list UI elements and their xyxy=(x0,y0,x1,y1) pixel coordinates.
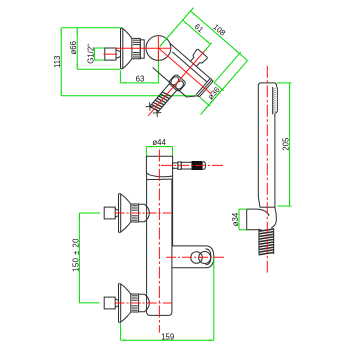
lever dome curve xyxy=(146,173,172,177)
clip strip texture xyxy=(274,88,277,111)
shower hose coil xyxy=(259,229,274,255)
spout axis centerline red xyxy=(158,48,211,94)
dimension 205 line xyxy=(277,83,292,206)
body centerline red vertical xyxy=(158,150,160,333)
svg-text:113: 113 xyxy=(53,56,62,68)
lower union cone xyxy=(121,284,131,322)
dimension phi34 line xyxy=(239,209,247,230)
hose break marks xyxy=(145,102,161,117)
spout tube body xyxy=(150,43,213,103)
eccentric tail G1/2 (side view) xyxy=(105,48,121,60)
lower union tail xyxy=(104,297,118,309)
handle clip strip xyxy=(272,86,277,114)
dimension 61 line xyxy=(177,19,212,51)
upper union tail xyxy=(104,207,118,219)
svg-text:G1/2": G1/2" xyxy=(86,44,95,64)
upper union centerline red xyxy=(115,212,172,214)
holder centerline red xyxy=(166,256,225,258)
hose hex nut xyxy=(168,74,186,92)
lever centerline red xyxy=(161,164,223,166)
knurled nut (side view) xyxy=(132,38,140,58)
hand shower hose (top view) xyxy=(150,84,177,113)
escutcheon cone (side view) xyxy=(123,29,132,69)
dimension 113 vertical line xyxy=(61,28,198,96)
tail centerline red xyxy=(103,53,117,55)
svg-text:150 ± 20: 150 ± 20 xyxy=(71,238,80,272)
lower union centerline red xyxy=(115,302,172,304)
upper union cone xyxy=(121,194,131,232)
knob-hose axis centerline red xyxy=(148,48,207,116)
hand shower centerline red xyxy=(266,66,268,273)
dimension phi66 line xyxy=(77,28,120,69)
lower union cap nut xyxy=(139,294,150,312)
hose coil outline xyxy=(259,228,274,255)
svg-text:205: 205 xyxy=(281,137,290,151)
svg-text:159: 159 xyxy=(161,332,174,341)
shower holder bracket xyxy=(172,246,214,268)
svg-text:ø34: ø34 xyxy=(231,212,240,226)
svg-text:108: 108 xyxy=(211,22,227,37)
dimension 108 line xyxy=(160,8,251,96)
upper union knurled nut xyxy=(131,204,139,222)
lever handle front xyxy=(173,162,192,169)
holder hole circles xyxy=(191,252,211,264)
svg-text:61: 61 xyxy=(193,22,205,34)
diverter knob xyxy=(188,49,207,69)
body top cap xyxy=(146,156,172,176)
dimension 150+-20 line xyxy=(79,213,100,303)
ball vertical centerline red xyxy=(157,37,159,61)
lower union flange xyxy=(119,284,121,323)
svg-text:ø66: ø66 xyxy=(69,41,78,54)
main axis centerline red xyxy=(117,47,172,49)
dimension 63 line xyxy=(120,51,158,84)
wall flange (side view) xyxy=(121,28,123,68)
body tube front xyxy=(147,173,173,316)
connector cylinder to ball xyxy=(140,40,144,58)
dimension 159 line xyxy=(121,258,214,340)
upper union cap nut xyxy=(139,204,150,222)
mixer ball body xyxy=(146,36,171,61)
dimension G1/2 box xyxy=(94,48,104,60)
lower union knurled nut xyxy=(131,294,139,312)
dimension phi36 line xyxy=(192,53,249,116)
dimension phi44 line xyxy=(146,147,172,156)
lever end cap xyxy=(202,162,205,170)
hand shower handle xyxy=(258,83,276,208)
rotated spout assembly xyxy=(120,4,255,142)
svg-text:ø44: ø44 xyxy=(152,138,166,147)
shower head barrel xyxy=(247,208,277,230)
upper union flange xyxy=(119,194,121,233)
lever grip black xyxy=(192,161,202,169)
svg-text:63: 63 xyxy=(136,74,145,83)
